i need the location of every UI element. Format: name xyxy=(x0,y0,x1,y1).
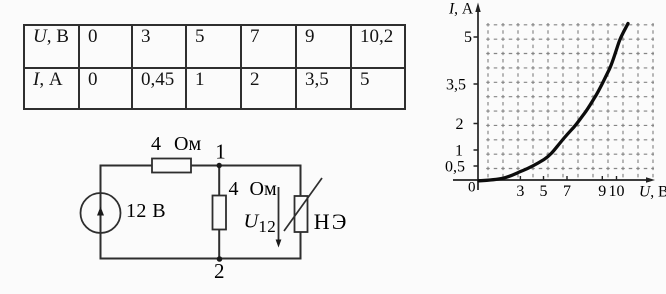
x tick label 9 xyxy=(598,183,606,200)
voltage U12 arrow (pointing down to node 2) xyxy=(276,187,282,248)
y tick label 2 xyxy=(456,116,464,133)
origin label 0 xyxy=(468,180,476,196)
y axis I xyxy=(475,3,480,191)
svg-text:НЭ: НЭ xyxy=(314,209,349,234)
x axis U xyxy=(453,177,655,182)
svg-text:3,5: 3,5 xyxy=(446,77,466,94)
svg-text:5: 5 xyxy=(540,183,548,200)
I(U) characteristic curve xyxy=(479,24,628,181)
x tick label 3 xyxy=(516,183,524,200)
svg-text:7: 7 xyxy=(563,183,571,200)
svg-text:I, А: I, А xyxy=(448,1,474,18)
resistor R2 4 Om vertical xyxy=(213,196,227,230)
y tick label 0,5 xyxy=(445,159,465,176)
value label 12 В xyxy=(126,200,166,222)
x tick label 5 xyxy=(540,183,548,200)
wire: right branch through NE xyxy=(300,165,302,260)
value label 4 Ом (R1) xyxy=(151,133,201,155)
nonlinear element NE (varistor symbol) xyxy=(284,178,322,232)
y tick label 5 xyxy=(464,29,472,46)
wire: left branch through source xyxy=(100,165,102,260)
node 2 label xyxy=(214,259,225,283)
svg-text:4 Ом: 4 Ом xyxy=(229,178,277,200)
label НЭ xyxy=(314,209,349,234)
node 1 label xyxy=(215,140,226,164)
svg-text:4 Ом: 4 Ом xyxy=(151,133,201,155)
svg-text:12 В: 12 В xyxy=(126,200,166,222)
node 1 junction dot xyxy=(217,163,222,168)
svg-text:3: 3 xyxy=(516,183,524,200)
source E1 12 V (circle with EMF arrow) xyxy=(81,193,121,233)
svg-text:1: 1 xyxy=(455,143,463,160)
wire: bottom horizontal return xyxy=(101,258,301,260)
wire: top horizontal from source to node 1 and to NE branch xyxy=(101,165,301,167)
wire: middle branch node1 to node2 xyxy=(218,166,220,259)
grid: horizontal dashed lines xyxy=(486,25,654,169)
axis label I, A xyxy=(448,1,474,18)
resistor R1 4 Om horizontal xyxy=(152,159,191,173)
y axis ticks xyxy=(474,37,479,166)
voltage U12 label xyxy=(244,211,277,237)
svg-text:5: 5 xyxy=(464,29,472,46)
axis label U, B xyxy=(639,184,666,201)
svg-text:9: 9 xyxy=(598,183,606,200)
svg-text:0: 0 xyxy=(468,180,476,196)
y tick label 1 xyxy=(455,143,463,160)
grid: vertical dashed lines xyxy=(488,23,653,181)
x axis ticks xyxy=(520,176,616,180)
svg-text:U, В: U, В xyxy=(639,184,666,201)
svg-text:2: 2 xyxy=(456,116,464,133)
node 2 junction dot xyxy=(217,256,223,262)
svg-text:2: 2 xyxy=(214,259,225,283)
y tick label 3,5 xyxy=(446,77,466,94)
svg-text:1: 1 xyxy=(215,140,226,164)
x tick label 10 xyxy=(609,183,625,200)
value label 4 Ом (R2) xyxy=(229,178,277,200)
svg-text:0,5: 0,5 xyxy=(445,159,465,176)
data table of U and I values xyxy=(23,24,406,110)
svg-text:10: 10 xyxy=(609,183,625,200)
x tick label 7 xyxy=(563,183,571,200)
svg-text:U12: U12 xyxy=(244,211,277,237)
